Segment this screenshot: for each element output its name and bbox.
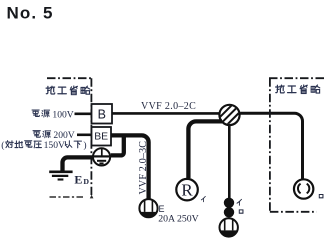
wire: breaker B to junction box xyxy=(112,112,219,115)
wire: 200V source to breaker BE xyxy=(77,134,92,137)
svg-text:R: R xyxy=(181,181,193,200)
svg-text:B: B xyxy=(98,107,106,121)
svg-text:E: E xyxy=(74,173,82,187)
thick wire: branch from BE run down to earth terminal xyxy=(111,135,124,155)
thick wire: earth terminal to ground electrode xyxy=(63,157,93,171)
junction box (hatched circle) xyxy=(214,100,244,130)
svg-text:D: D xyxy=(83,177,89,186)
label ロ (switch) xyxy=(239,210,243,213)
svg-text:): ) xyxy=(83,140,86,151)
label イ (lamp) xyxy=(201,196,205,201)
earth terminal (circle with earth symbol) xyxy=(93,148,110,165)
breaker B (B box) xyxy=(92,104,113,124)
svg-text:(: ( xyxy=(1,140,4,151)
wire: 100V source to breaker B xyxy=(75,113,92,116)
label (対地電圧150V以下) xyxy=(1,140,86,151)
right construction-omitted boundary (dash-dot) xyxy=(269,78,325,212)
left boundary bottom dash-dot xyxy=(50,195,94,199)
label 電源200V xyxy=(33,130,75,141)
label 施工省略 (right) xyxy=(276,85,320,94)
label E xyxy=(159,204,165,214)
switch ロ (dot) xyxy=(224,207,234,217)
lamp receptacle R xyxy=(176,179,198,201)
label VVF 2.0-3C (vertical) xyxy=(138,141,149,195)
svg-text:20A 250V: 20A 250V xyxy=(158,213,199,224)
breaker BE (earth-leakage breaker box) xyxy=(92,127,112,146)
switch イ (dot) xyxy=(224,198,234,208)
thick wire: junction box to lamp receptacle R xyxy=(188,121,222,178)
ceiling rose ロ (round hooking ceiling) xyxy=(294,179,313,198)
wire: junction box down to switches xyxy=(228,125,231,200)
label 20A 250V xyxy=(158,213,199,224)
title No. 5 xyxy=(7,4,54,23)
left construction-omitted boundary (dash-dot) xyxy=(47,78,92,195)
label イ (switch) xyxy=(237,199,241,205)
outlet below switches (receptacle symbol) xyxy=(220,218,238,236)
svg-text:No. 5: No. 5 xyxy=(7,4,54,23)
label 電源100V xyxy=(32,109,74,120)
thick wire: BE to 250V outlet (VVF 2.0-3C run) xyxy=(111,135,149,199)
ground electrode symbol xyxy=(49,172,72,180)
wire: junction box to right (to hanging ceiling rose) xyxy=(240,113,302,179)
label 施工省略 (left) xyxy=(46,86,90,95)
label VVF 2.0-2C xyxy=(141,101,196,112)
outlet 20A 250V E (receptacle symbol) xyxy=(139,199,157,217)
svg-text:BE: BE xyxy=(94,132,108,143)
label ロ (ceiling rose) xyxy=(319,195,323,198)
svg-text:VVF 2.0–2C: VVF 2.0–2C xyxy=(141,101,196,112)
svg-text:VVF 2.0–3C: VVF 2.0–3C xyxy=(138,141,149,195)
svg-text:100V: 100V xyxy=(52,109,73,120)
svg-text:150V: 150V xyxy=(44,140,65,151)
label ED xyxy=(74,173,89,187)
